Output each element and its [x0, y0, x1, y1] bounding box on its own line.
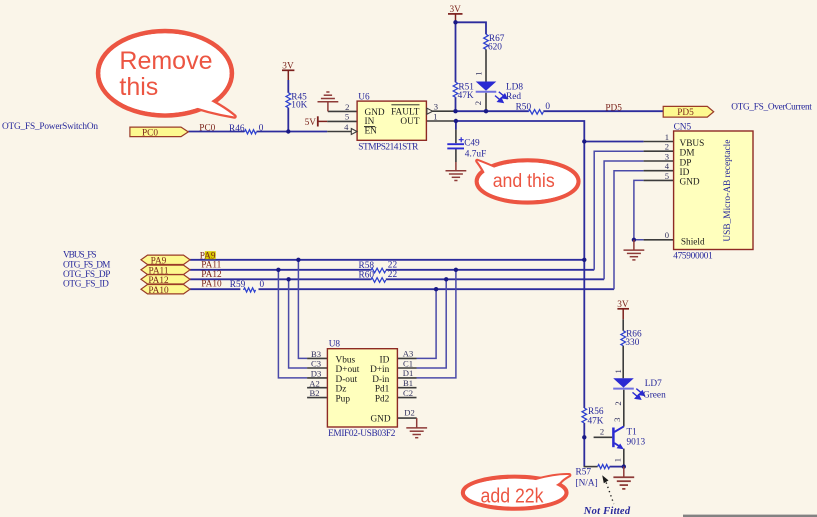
wire GND pin5 to shield [634, 180, 644, 239]
svg-text:IN: IN [365, 117, 375, 127]
svg-text:PD5: PD5 [677, 108, 694, 118]
pin LD8 cathode stub [485, 93, 487, 112]
svg-text:1: 1 [474, 71, 484, 75]
svg-text:D2: D2 [404, 407, 415, 417]
svg-text:R57: R57 [576, 468, 592, 478]
junction VBUS node [582, 139, 586, 143]
svg-text:B3: B3 [311, 349, 321, 359]
wire PA12 line [190, 278, 371, 280]
svg-text:22: 22 [388, 270, 398, 280]
wire U8 C1 to PA12 line [417, 279, 447, 368]
resistor R51 [453, 82, 474, 101]
svg-text:475900001: 475900001 [673, 251, 713, 261]
junction PA11/D3 [276, 268, 280, 272]
resistor R59 [230, 280, 265, 292]
svg-text:4.7uF: 4.7uF [465, 149, 486, 159]
svg-text:OTG_FS_DP: OTG_FS_DP [63, 270, 110, 280]
svg-text:R58: R58 [359, 261, 375, 271]
svg-text:2: 2 [345, 102, 349, 112]
resistor R57 [576, 465, 610, 489]
junction shield node [632, 238, 636, 242]
port PA12 [141, 275, 190, 286]
svg-text:5V: 5V [305, 118, 317, 128]
svg-text:Pup: Pup [336, 394, 351, 404]
port PC0 [130, 127, 188, 138]
junction C49/OUT [454, 119, 458, 123]
svg-text:47K: 47K [588, 416, 604, 426]
pin CN5.1 stub [644, 141, 674, 143]
svg-text:and this: and this [493, 171, 555, 192]
svg-text:5: 5 [345, 112, 349, 122]
pin R66 top column [622, 319, 624, 331]
svg-text:Shield: Shield [681, 237, 705, 247]
ground U8 D2 [406, 418, 427, 438]
svg-text:PA11: PA11 [201, 261, 221, 271]
svg-text:D-in: D-in [372, 375, 389, 385]
wire PA9 to U8 B3 [298, 260, 307, 359]
svg-text:U8: U8 [329, 339, 341, 349]
pin U8 A3 stub [396, 357, 416, 359]
svg-text:U6: U6 [358, 93, 370, 103]
pin R57 left stub [584, 466, 598, 468]
svg-text:STMPS2141STR: STMPS2141STR [358, 143, 419, 153]
wire PA9 line [190, 259, 584, 261]
svg-text:Pd2: Pd2 [375, 394, 390, 404]
junction PA11/D1 [454, 268, 458, 272]
svg-text:ID: ID [379, 355, 389, 365]
svg-text:GND: GND [370, 415, 390, 425]
pin U6.3 FAULT stub [426, 110, 456, 112]
svg-text:PA10: PA10 [201, 280, 222, 290]
annotation arrow Not Fitted [602, 475, 614, 504]
pin U8 C1 stub [396, 367, 416, 369]
wire PA10 line [190, 288, 240, 290]
svg-text:PA12: PA12 [201, 270, 222, 280]
pin U8 B3 stub [307, 357, 327, 359]
pin U8 D2 GND stub [397, 417, 416, 419]
capacitor C49 [447, 137, 486, 159]
junction PA12/C3 [286, 277, 290, 281]
junction R51/FAULT [453, 109, 457, 113]
LED LD7 [613, 369, 666, 405]
port PD5 [663, 106, 714, 118]
net label PA9 highlighted [200, 251, 216, 261]
wire U8 A3 to PA10 line [417, 289, 437, 358]
svg-text:C3: C3 [311, 359, 321, 369]
svg-text:DM: DM [680, 149, 695, 159]
svg-text:1: 1 [613, 458, 623, 462]
arrow U6 EN input [351, 129, 357, 135]
pin U8 B1 stub [396, 387, 416, 389]
svg-text:VBUS_FS: VBUS_FS [63, 251, 97, 261]
pin T1 base stub [594, 436, 613, 438]
pin LD7 cathode to T1 collector [623, 390, 625, 427]
pin CN5.3 stub [644, 160, 674, 162]
power 3V (LD7 branch) [617, 300, 629, 319]
svg-text:2: 2 [665, 142, 669, 152]
wire ID pin4 [614, 171, 644, 290]
svg-text:0: 0 [260, 280, 265, 290]
svg-text:1: 1 [613, 369, 623, 373]
port PA9 [141, 255, 190, 266]
port PA11 [141, 265, 190, 276]
svg-text:USB_Micro-AB receptacle: USB_Micro-AB receptacle [723, 140, 733, 242]
svg-text:GND: GND [680, 178, 700, 188]
junction PA9/B3 [296, 258, 300, 262]
svg-text:R59: R59 [230, 280, 246, 290]
svg-text:add 22k: add 22k [481, 486, 545, 508]
wire R56 to base node [583, 423, 585, 437]
junction PA9/VBUS vertical [582, 258, 586, 262]
svg-text:330: 330 [625, 338, 639, 348]
svg-text:D3: D3 [311, 369, 322, 379]
pin CN5.2 stub [644, 150, 674, 152]
pin U8 D3 stub [307, 377, 327, 379]
svg-text:EMIF02-USB03F2: EMIF02-USB03F2 [328, 429, 396, 439]
wire R57 to emitter node [610, 466, 624, 468]
svg-text:FAULT: FAULT [391, 108, 420, 118]
svg-text:R46: R46 [229, 124, 245, 134]
svg-text:Green: Green [643, 390, 666, 400]
pin U8 B2 stub [307, 397, 327, 399]
svg-text:47K: 47K [458, 91, 474, 101]
pin U6.1 OUT stub [426, 120, 456, 122]
svg-text:OUT: OUT [400, 117, 419, 127]
pin C49 top stub [455, 130, 457, 144]
resistor R46 [229, 124, 264, 134]
svg-text:EN: EN [365, 127, 378, 137]
svg-text:Pd1: Pd1 [375, 385, 390, 395]
svg-text:D-out: D-out [336, 375, 358, 385]
power 3V (top, LED branch) [448, 5, 463, 22]
speech bubble Remove this [98, 31, 234, 116]
junction base node [582, 435, 586, 439]
LED LD8 [473, 71, 523, 105]
pin LD8 anode stub [485, 49, 487, 81]
pin R66 to LD7 [622, 346, 624, 379]
svg-text:2: 2 [473, 101, 483, 105]
svg-text:5: 5 [665, 171, 669, 181]
svg-text:3: 3 [434, 102, 438, 112]
pin U6.5 IN stub [327, 120, 357, 122]
pin C49 bottom stub [455, 148, 457, 162]
svg-text:22: 22 [388, 261, 398, 271]
junction 3V split [453, 20, 457, 24]
svg-text:[N/A]: [N/A] [576, 478, 598, 488]
svg-text:0: 0 [665, 230, 669, 240]
junction LD8/FAULT [484, 109, 488, 113]
resistor R66 [621, 329, 642, 347]
arrow U6 FAULT output [427, 108, 433, 114]
speech bubble add 22k [463, 475, 569, 509]
svg-text:A2: A2 [309, 378, 320, 388]
wire 3V node to R51 [455, 22, 457, 82]
transistor T1 [613, 426, 645, 449]
svg-text:OTG_FS_OverCurrent: OTG_FS_OverCurrent [731, 103, 812, 113]
svg-text:1: 1 [665, 132, 669, 142]
wire PA11 to U8 D3 [278, 270, 307, 378]
svg-text:LD7: LD7 [645, 379, 662, 389]
wire PA11 line [190, 269, 371, 271]
svg-text:2: 2 [600, 426, 604, 436]
svg-text:B1: B1 [403, 378, 413, 388]
power 5V [305, 116, 328, 128]
wire 3V node to R67 LED branch [456, 22, 487, 34]
wire base node to R57 [583, 437, 585, 466]
pin CN5.5 stub [644, 179, 674, 181]
svg-text:R60: R60 [359, 271, 375, 281]
svg-text:CN5: CN5 [674, 123, 692, 133]
ground C49 [446, 162, 467, 181]
pin CN5.4 stub [644, 170, 674, 172]
svg-text:PC0: PC0 [142, 128, 158, 138]
svg-text:10K: 10K [291, 101, 307, 111]
wire VBUS pin1 [584, 141, 643, 143]
svg-text:Dz: Dz [336, 385, 347, 395]
svg-text:1: 1 [433, 111, 437, 121]
svg-text:OTG_FS_ID: OTG_FS_ID [63, 280, 109, 290]
svg-text:3: 3 [665, 151, 669, 161]
svg-text:3: 3 [612, 418, 622, 422]
junction R45/EN node [286, 129, 290, 133]
pin CN5.0 shield stub [644, 239, 674, 241]
ground emitter [613, 467, 634, 489]
junction emitter node [622, 464, 626, 468]
svg-text:9013: 9013 [627, 438, 646, 448]
resistor R58 [359, 261, 398, 273]
pin U8 A2 stub [307, 387, 327, 389]
wire U8 D1 to PA11 line [417, 270, 456, 378]
svg-text:this: this [119, 73, 158, 101]
svg-text:Remove: Remove [119, 47, 212, 75]
resistor R50 [516, 102, 551, 114]
ground shield [624, 240, 645, 260]
svg-text:620: 620 [488, 43, 502, 53]
junction PA12/C1 [444, 277, 448, 281]
resistor R56 [582, 407, 604, 426]
svg-text:Red: Red [506, 92, 521, 102]
wire 3V R45 drop [287, 80, 289, 93]
svg-text:D+out: D+out [336, 365, 360, 375]
svg-text:OTG_FS_DM: OTG_FS_DM [63, 260, 110, 270]
pin U8 D1 stub [396, 377, 416, 379]
svg-text:0: 0 [545, 102, 550, 112]
resistor R45 [286, 93, 308, 111]
pin U8 C3 stub [307, 367, 327, 369]
svg-text:0: 0 [259, 124, 264, 134]
junction PA10/A3 [434, 287, 438, 291]
wire PC0 to U6 EN [188, 131, 244, 133]
svg-text:4: 4 [665, 161, 670, 171]
wire PA12 to U8 C3 [289, 279, 308, 368]
resistor R60 [359, 270, 398, 282]
window edge artifact [683, 515, 817, 517]
svg-text:C49: C49 [464, 139, 480, 149]
svg-text:D1: D1 [403, 368, 414, 378]
ground U6 GND (inverted) [318, 92, 339, 111]
svg-text:Vbus: Vbus [336, 355, 356, 365]
svg-text:OTG_FS_PowerSwitchOn: OTG_FS_PowerSwitchOn [2, 122, 98, 132]
svg-text:DP: DP [680, 158, 692, 168]
filter U8 body [327, 339, 397, 439]
pin T1 emitter stub [623, 449, 625, 467]
svg-text:T1: T1 [627, 428, 638, 438]
svg-text:PD5: PD5 [605, 103, 622, 113]
op-amp U6 body [357, 93, 426, 153]
wire DM pin2 [594, 151, 643, 270]
svg-text:B2: B2 [309, 388, 319, 398]
wire FAULT line to PD5 [456, 110, 528, 112]
power 3V (R45) [282, 61, 294, 80]
svg-text:D+in: D+in [370, 365, 390, 375]
svg-text:C1: C1 [403, 358, 413, 368]
port PA10 [141, 285, 190, 296]
svg-text:VBUS: VBUS [680, 139, 705, 149]
svg-text:A3: A3 [403, 349, 414, 359]
svg-text:ID: ID [680, 168, 690, 178]
wire DP pin3 [604, 161, 644, 279]
connector CN5 body [673, 123, 753, 262]
wire C49 stub [455, 121, 457, 130]
svg-text:2: 2 [613, 401, 623, 405]
wire VBUS vertical to PA9 and R56 [583, 142, 585, 409]
svg-text:Not Fitted: Not Fitted [583, 506, 631, 517]
svg-text:PC0: PC0 [199, 124, 215, 134]
wire OUT line to VBUS vertical [456, 121, 584, 142]
svg-text:PA10: PA10 [148, 286, 169, 296]
svg-text:4: 4 [344, 122, 349, 132]
svg-text:C2: C2 [403, 388, 413, 398]
pin U6.2 GND stub [328, 110, 357, 112]
resistor R67 [484, 34, 505, 53]
pin U8 C2 stub [396, 397, 416, 399]
speech bubble and this [477, 160, 579, 202]
pin U6.4 EN stub [327, 131, 351, 133]
